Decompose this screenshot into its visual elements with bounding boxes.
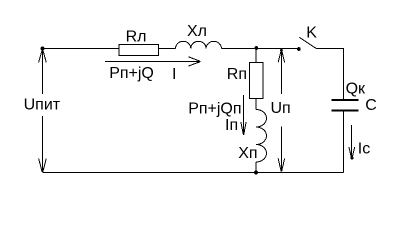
wire: stub between Rп and Xп bbox=[255, 99, 257, 110]
svg-text:Rл: Rл bbox=[126, 29, 147, 46]
svg-text:K: K bbox=[306, 25, 317, 42]
svg-text:Uпит: Uпит bbox=[24, 97, 61, 114]
inductor Xл bbox=[176, 23, 222, 48]
wire: top bus from node A to resistor Rл bbox=[43, 48, 119, 50]
wire: from node B to switch contact bbox=[256, 48, 299, 50]
svg-text:Pп+jQ: Pп+jQ bbox=[109, 65, 154, 82]
current arrow Iп with power label Pп+jQп bbox=[188, 95, 246, 135]
resistor Rп bbox=[227, 63, 263, 99]
capacitor C with label Qк bbox=[332, 80, 377, 114]
svg-text:Pп+jQп: Pп+jQп bbox=[188, 100, 241, 117]
wire: from capacitor down to bottom bus bbox=[343, 112, 345, 173]
node B (junction of load branch) bbox=[254, 46, 258, 50]
wire: from switch to top-right corner and down to capacitor bbox=[316, 49, 344, 100]
wire: bottom bus bbox=[43, 172, 344, 174]
voltage arrow Uп (double-headed) bbox=[271, 49, 291, 172]
voltage arrow Uпит (source voltage, double-headed) bbox=[24, 47, 61, 173]
svg-text:Uп: Uп bbox=[271, 100, 291, 117]
svg-text:Xп: Xп bbox=[238, 145, 257, 162]
current arrow I with power label Pп+jQ bbox=[105, 57, 201, 83]
svg-text:Qк: Qк bbox=[346, 80, 366, 97]
inductor Xп bbox=[238, 110, 266, 163]
wire: between Rл and Xл bbox=[159, 48, 176, 50]
svg-text:Xл: Xл bbox=[187, 23, 207, 40]
wire: branch from node B down to resistor Rп bbox=[255, 49, 257, 63]
svg-text:Iс: Iс bbox=[358, 141, 370, 158]
wire: from Xл to node B bbox=[221, 48, 256, 50]
svg-text:Rп: Rп bbox=[227, 66, 247, 83]
switch K bbox=[297, 25, 317, 51]
svg-text:Iп: Iп bbox=[225, 117, 238, 134]
current arrow Iс bbox=[349, 125, 370, 160]
node C (bottom junction) bbox=[254, 171, 258, 175]
svg-text:C: C bbox=[365, 97, 377, 114]
resistor Rл bbox=[119, 29, 159, 56]
svg-text:I: I bbox=[172, 66, 176, 83]
wire: stub from Xп to bottom node bbox=[255, 162, 257, 173]
